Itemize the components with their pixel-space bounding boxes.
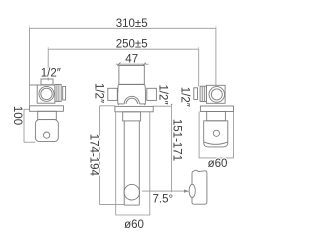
svg-text:ø60: ø60 xyxy=(208,158,228,170)
right valve handle inner circle xyxy=(211,89,222,100)
dim 47 line xyxy=(116,63,149,65)
svg-text:7.5°: 7.5° xyxy=(153,194,174,206)
dim 7.5 arrowhead xyxy=(184,190,189,193)
svg-text:310±5: 310±5 xyxy=(116,18,148,30)
dim 7.5 line xyxy=(142,190,185,192)
dim 151-171 top tick xyxy=(153,105,171,107)
middle right connector xyxy=(147,88,157,100)
dim 174-194 bottom tick xyxy=(100,204,125,206)
dim 100 top tick xyxy=(24,108,30,110)
spout tube bottom xyxy=(124,204,139,206)
right valve body xyxy=(206,85,225,103)
svg-text:250±5: 250±5 xyxy=(116,38,148,50)
right lower neck xyxy=(207,112,226,121)
left valve handle outer circle xyxy=(39,86,54,101)
left lower neck xyxy=(38,111,57,119)
dim 310 corner stubs xyxy=(29,26,31,29)
left valve body xyxy=(37,85,55,103)
middle tee arch inner xyxy=(126,98,137,104)
svg-text:47: 47 xyxy=(125,53,138,65)
side view body xyxy=(192,170,207,204)
spout collar xyxy=(123,112,141,121)
svg-text:151-171: 151-171 xyxy=(171,119,183,161)
right lower body xyxy=(204,121,228,147)
dim 47 tick right xyxy=(143,63,146,66)
right wall plate xyxy=(200,106,233,112)
middle left connector xyxy=(108,88,118,100)
left wall plate xyxy=(30,106,64,112)
dim 174-194 line xyxy=(99,106,101,205)
dim 174-194 top tick xyxy=(100,105,115,107)
left valve neck xyxy=(41,79,53,85)
middle tee body xyxy=(118,84,146,105)
svg-text:ø60: ø60 xyxy=(124,219,144,231)
right valve cap xyxy=(194,88,198,100)
left valve handle inner circle xyxy=(41,88,52,99)
dim 310 line xyxy=(30,28,216,106)
right lower body screw xyxy=(213,130,219,136)
left valve spur xyxy=(30,84,38,86)
right lower body lip arc xyxy=(204,142,228,144)
dim 250 corner stubs xyxy=(47,47,49,49)
side view outlet ellipse xyxy=(189,184,195,197)
right valve ribs xyxy=(200,86,206,101)
dim 100 line xyxy=(23,109,25,142)
svg-text:174-194: 174-194 xyxy=(88,134,100,177)
dim 151-171 arrow xyxy=(171,104,173,106)
middle wall plate xyxy=(115,106,153,111)
middle tee arch outer xyxy=(124,96,139,104)
right o60 box xyxy=(199,112,233,158)
dim 100 bottom tick xyxy=(24,141,35,143)
dim 250 line xyxy=(48,49,199,86)
svg-text:1/2″: 1/2″ xyxy=(93,83,105,103)
right valve handle outer circle xyxy=(209,87,225,103)
svg-text:1/2″: 1/2″ xyxy=(41,67,61,79)
left valve ribs xyxy=(55,84,61,101)
svg-text:1/2″: 1/2″ xyxy=(179,87,191,107)
spout tube right xyxy=(138,121,140,205)
spout tube left xyxy=(123,121,125,205)
spout tip circle xyxy=(124,184,140,200)
dim o60 box bottom xyxy=(116,112,150,215)
left lower body screw xyxy=(44,132,50,138)
dim 151-171 line xyxy=(171,106,173,192)
left valve cap xyxy=(63,86,66,100)
dim 47 tick left xyxy=(117,63,120,66)
middle tee bottom line xyxy=(118,103,124,105)
middle top block xyxy=(119,66,144,85)
svg-text:1/2″: 1/2″ xyxy=(157,84,169,104)
svg-text:100: 100 xyxy=(11,106,23,125)
left lower body xyxy=(35,120,58,142)
